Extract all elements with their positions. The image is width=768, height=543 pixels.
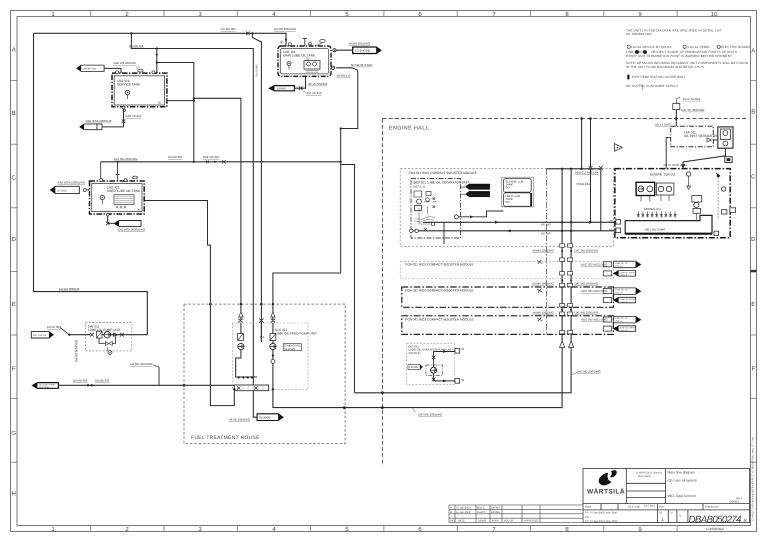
FUEL TREATMENT HOUSE boundary dashed [184,304,345,444]
svg-text:Make: Make [585,506,592,509]
row of injector valves [637,212,676,218]
drain symbol below [108,351,112,355]
valve on y161 [206,160,226,163]
feed pump unit box [232,323,308,389]
wire T1 right outlet to treatment [101,161,341,163]
svg-text:Avec Mach: Avec Mach [638,475,651,478]
svg-text:10: 10 [711,11,718,18]
svg-text:AD. MS: AD. MS [541,223,551,227]
valves above/below [432,356,436,381]
svg-text:D: D [751,236,756,243]
top fittings [100,179,103,182]
svg-text:(NOTE 1): (NOTE 1) [413,185,425,189]
flow arrows up on risers [560,341,574,348]
svg-text:IN THE UNIT FLOW DIAGRAMS AND: IN THE UNIT FLOW DIAGRAMS AND DETAIL LIS… [626,65,704,69]
svg-text:ENGINE HALL: ENGINE HALL [389,126,429,132]
wire top line y=33.3 [34,33,287,334]
engine TQA011 [610,169,736,238]
svg-text:SLUDGE: SLUDGE [259,416,271,420]
svg-text:C:\WDCS\Drawings\DBAB050274_Ma: C:\WDCS\Drawings\DBAB050274_MainFlow.dwg… [752,436,755,521]
svg-text:ENG LP: ENG LP [620,301,628,304]
svg-text:DET MSL: DET MSL [644,505,656,508]
wire suction line y=385.3 [58,384,234,386]
svg-text:CUSTOMER SUPPLY: CUSTOMER SUPPLY [646,84,678,88]
svg-text:CuAPT: CuAPT [477,511,486,514]
check valve [114,333,118,336]
svg-text:(2): (2) [280,40,283,44]
wire T2 drain header y=128.8 [341,70,358,128]
svg-text:A: A [450,506,452,509]
svg-text:LOCAL DEVICE BY WILHA: LOCAL DEVICE BY WILHA [631,45,672,49]
svg-text:PGA 021 WO2 COMPACT BOOSTER MO: PGA 021 WO2 COMPACT BOOSTER MODULE [405,263,473,267]
svg-text:SC DB 337/DWG: SC DB 337/DWG [351,63,373,67]
svg-text:Drawing No: Drawing No [705,506,719,509]
svg-text:OVERFLOW: OVERFLOW [83,67,97,70]
module PGA041 [402,316,614,335]
svg-text:No. DBAB017392: No. DBAB017392 [626,32,652,36]
svg-text:TR.OIL: TR.OIL [409,365,418,369]
flow triangle symbol [666,138,671,169]
svg-text:DA MD 905/DWG: DA MD 905/DWG [274,27,296,31]
separator unit box QBS101 [411,179,461,239]
sludge/dirty tank boxes [501,177,533,207]
svg-text:DA WD 905: DA WD 905 [221,27,236,31]
svg-text:USED LUBE OIL TANK: USED LUBE OIL TANK [107,189,141,193]
Wartsila logo [587,470,625,495]
svg-text:PIPE PENETRATION OUTER WALL: PIPE PENETRATION OUTER WALL [632,75,686,79]
svg-text:ADD 011 PCS LPA: ADD 011 PCS LPA [575,171,599,175]
valve on top line [246,31,250,35]
valve [90,333,94,337]
svg-text:ENG LP: ENG LP [615,292,623,295]
svg-text:MAIN LUBE OIL TANK: MAIN LUBE OIL TANK [283,54,316,58]
junction dots top [130,32,253,55]
svg-text:H: H [12,491,16,498]
module PGA031 [402,287,614,307]
manifold [236,376,257,378]
right end connector boxes + flags strip1 [581,261,640,277]
svg-text:DA MD 456: DA MD 456 [129,44,144,48]
flag T3 supply [51,181,90,194]
svg-text:DATE: DATE [458,520,465,523]
bus under module [546,168,600,170]
svg-text:APPR: APPR [492,520,499,523]
pump label box [283,344,301,351]
heater hatch box [114,195,134,205]
svg-text:DA MD 903: DA MD 903 [73,378,88,382]
flag inside [408,365,420,370]
svg-text:05: 05 [610,228,614,232]
svg-text:JAC VD 450: JAC VD 450 [306,91,322,95]
svg-text:G: G [11,430,16,437]
right end connector boxes + flags strip2 [581,288,640,304]
fan unit box [718,127,733,148]
wire drop T2 to line1 [340,129,342,274]
svg-text:DAT MD 206/DWG: DAT MD 206/DWG [114,157,138,161]
svg-text:ENG LP: ENG LP [620,329,628,332]
svg-text:AD VT DWG: AD VT DWG [655,123,671,127]
svg-text:NORMAL 011: NORMAL 011 [644,207,662,211]
svg-text:DA VTS DWG: DA VTS DWG [683,97,701,101]
wire link to 356 drop [341,165,355,393]
svg-text:DATMS: DATMS [491,511,500,514]
svg-text:B: B [12,110,16,117]
label stub [158,367,160,385]
bypass relief loop [99,336,116,343]
notes text block top right [626,29,750,89]
svg-text:AD VTTRHE PCSL: AD VTTRHE PCSL [663,163,687,167]
svg-text:LUBE OIL PUMP UNIT: LUBE OIL PUMP UNIT [88,328,121,332]
svg-text:B: B [450,511,452,514]
svg-text:APPROVED: APPROVED [524,520,539,523]
svg-text:ELECTRIC BOARD: ELECTRIC BOARD [721,45,750,49]
svg-text:F: F [751,366,755,373]
module PGA011 boundary [400,169,613,247]
flow arrows down [239,312,275,317]
svg-text:01: 01 [461,347,465,351]
svg-text:11-Jan-2009: 11-Jan-2009 [456,511,471,514]
svg-text:(2): (2) [306,57,309,61]
pump box 1 (thick) [636,182,655,195]
svg-text:DAT MD 105/DWG: DAT MD 105/DWG [575,310,599,314]
wire line1 y=394.3 [355,169,572,393]
svg-text:Main flow diagram: Main flow diagram [668,471,696,475]
bottom nozzle [122,106,125,109]
flags compressed air / operating water [466,184,490,189]
svg-text:VA MN 105/DWG: VA MN 105/DWG [532,249,554,253]
svg-text:ADD BY: ADD BY [504,520,514,523]
svg-text:VA MN 105/DWG: VA MN 105/DWG [532,282,554,286]
unit to tank line [454,215,458,219]
wire line A supply to engine [423,221,616,223]
svg-text:LUBE OIL TO: LUBE OIL TO [615,262,628,265]
svg-text:VA MN 105/DWG: VA MN 105/DWG [532,310,554,314]
flag T3 drain [106,214,145,232]
pump box 2 [656,183,674,195]
svg-text:LUBE OIL FROM: LUBE OIL FROM [620,298,636,301]
svg-text:DAT MD 200/DWG: DAT MD 200/DWG [577,369,601,373]
ENGINE HALL boundary dashed [383,119,748,467]
svg-text:LUBE OIL FROM: LUBE OIL FROM [620,271,636,274]
svg-text:MwCC: MwCC [477,506,485,509]
svg-text:F: F [12,366,16,373]
svg-text:VA MN 305/DWG: VA MN 305/DWG [349,42,371,46]
filters [238,334,244,341]
right end connector boxes + flags strip3 [581,316,640,332]
svg-text:IMO: Opal Cement: IMO: Opal Cement [668,494,696,498]
svg-text:DAT VD 200/DWG: DAT VD 200/DWG [681,108,704,112]
module PGA021 [400,262,613,279]
flag T2 drain [269,76,327,95]
svg-text:DA VD 903: DA VD 903 [47,325,61,329]
svg-text:ENG LP: ENG LP [620,274,628,277]
svg-text:PP: PP [585,512,589,515]
drop with slant to engine [683,148,725,168]
svg-text:COMPRESSED AIR: COMPRESSED AIR [470,186,489,189]
tank LAG101 main lube oil tank [278,39,331,77]
svg-text:EVERY UNIT TERMINATION POINT I: EVERY UNIT TERMINATION POINT IS WARMED B… [626,54,732,58]
right band dark divider [751,270,757,272]
svg-text:A: A [751,48,755,55]
level indicator [125,90,129,94]
svg-text:SA VD 905: SA VD 905 [256,64,259,77]
junction dots on lines A/B [561,221,572,232]
valves [238,319,275,323]
svg-text:ADC 021 WO2 DWG: ADC 021 WO2 DWG [581,262,607,266]
svg-text:PGA 011 WO2 COMPACT BOOSTER MO: PGA 011 WO2 COMPACT BOOSTER MODULE [409,171,477,175]
svg-text:PGA 041 WO2 COMPACT BOOSTER MO: PGA 041 WO2 COMPACT BOOSTER MODULE [405,317,473,321]
drain to flag [253,391,257,418]
svg-text:(SIMILING): (SIMILING) [577,182,591,186]
svg-text:VA VE 104/DWG: VA VE 104/DWG [229,418,250,422]
heater box inside [304,61,320,69]
svg-text:SAE WSA 200S/P40: SAE WSA 200S/P40 [86,119,112,123]
wet oil sump [625,215,712,233]
svg-text:DA WD 908/P40: DA WD 908/P40 [59,287,80,291]
valve marks inside strips [537,260,542,322]
flag overflow to T1 [77,61,136,73]
flag sludge pump suction [33,383,59,390]
svg-text:DA MD 905: DA MD 905 [168,155,183,159]
svg-text:LUBE OIL FROM: LUBE OIL FROM [620,327,636,330]
svg-text:FUEL TREATMENT HOUSE: FUEL TREATMENT HOUSE [191,435,260,441]
svg-text:DATMS: DATMS [491,506,500,509]
svg-text:C: C [751,174,756,181]
svg-text:02: 02 [461,378,465,382]
svg-text:DAT MD 200/DWG: DAT MD 200/DWG [418,412,442,416]
svg-text:VA MN 413: VA MN 413 [337,73,351,77]
svg-text:DRAIN: DRAIN [277,87,286,91]
wire line2 y=407.3 [273,169,562,408]
svg-text:SAE WSA 100S/DWG: SAE WSA 100S/DWG [58,181,86,185]
pump with dashdot box [426,365,443,375]
svg-text:(4): (4) [137,208,140,212]
svg-text:WÄRTSILÄ: WÄRTSILÄ [587,488,625,496]
svg-text:1: 1 [661,517,664,523]
svg-text:SERVICE TANK: SERVICE TANK [117,83,141,87]
pump1 down to manifold [236,350,241,378]
wire T3 vent riser [117,162,119,175]
svg-text:SAE WSA 300S/DWG: SAE WSA 300S/DWG [118,227,146,231]
svg-text:DRY LUB OIL: DRY LUB OIL [33,334,47,337]
left connector boxes [616,220,621,225]
svg-text:TO ENGINE: TO ENGINE [355,49,370,53]
svg-text:ENGINE TQA 011: ENGINE TQA 011 [650,172,676,176]
svg-text:PGA 031 WO2 COMPACT BOOSTER MO: PGA 031 WO2 COMPACT BOOSTER MODULE [405,289,473,293]
flag T1 drain [80,109,142,130]
svg-text:SLUDGE PUMP: SLUDGE PUMP [39,384,55,387]
svg-text:WET OIL SUMP: WET OIL SUMP [645,227,665,231]
pump unit box [69,323,132,355]
oil mist separator box LAF011 [671,126,714,146]
svg-text:}: } [642,85,644,91]
left feed loop [210,304,234,406]
svg-text:SUCTION: SUCTION [39,386,49,389]
svg-text:(2): (2) [136,66,139,70]
svg-text:07-Jan-2009: 07-Jan-2009 [456,506,471,509]
strainer trough [234,385,268,391]
pumps [238,343,244,349]
svg-text:DBAB050274: DBAB050274 [689,514,743,525]
svg-text:ADC 041 WO2 DWG: ADC 041 WO2 DWG [581,318,607,322]
svg-text:ENG LP: ENG LP [615,265,623,268]
tank LAG921 used lube oil tank [90,175,145,215]
svg-text:DRWN: DRWN [478,520,486,523]
wire y=64.3 transfer line to sludge [336,68,358,71]
suction junction [68,334,70,336]
filter [97,331,103,338]
pump [104,332,110,338]
vent pot [673,104,680,110]
svg-text:SAE MD 905: SAE MD 905 [203,155,220,159]
svg-text:C/09/05: C/09/05 [729,500,739,504]
wire line B return from engine [413,230,616,232]
svg-text:LUBE OIL TO: LUBE OIL TO [615,289,628,292]
wire FTH feeders [273,273,341,321]
wire T3 outlet down to FTH [144,201,210,305]
svg-text:AD. MS: AD. MS [541,231,551,235]
main flow line through unit [69,334,90,336]
svg-text:DAE VD 450: DAE VD 450 [126,114,142,118]
svg-text:OPERATING WATER: OPERATING WATER [470,193,490,196]
wire left loop [34,33,148,334]
svg-text:ADC 031 WO2 DWG: ADC 031 WO2 DWG [581,289,607,293]
right inner dashed riser [717,177,719,219]
svg-text:REV: REV [450,520,456,523]
svg-text:Confidential: Confidential [706,527,724,531]
unit internals [414,191,422,197]
svg-text:SC VD 053/045: SC VD 053/045 [308,82,328,86]
continue feeders below valves [240,323,242,334]
svg-text:BE C3.rap: BE C3.rap [628,506,641,509]
svg-text:DLE WS: DLE WS [284,347,295,351]
svg-text:SAE WS 305/P40: SAE WS 305/P40 [114,61,137,65]
svg-text:SLUDGE: SLUDGE [58,189,68,192]
svg-text:DAT MD 105/DWG: DAT MD 105/DWG [575,282,599,286]
svg-text:© WÄRTSILÄ Used by: © WÄRTSILÄ Used by [636,471,663,475]
svg-text:LUBE OIL TO: LUBE OIL TO [615,317,628,320]
svg-text:DAT MD 105/DWG: DAT MD 105/DWG [575,249,599,253]
wire riser to T1 top [131,33,253,377]
svg-text:B: B [751,109,755,116]
svg-text:E: E [12,301,16,308]
tank LAG913 service tank [112,66,167,112]
small box on slant [725,157,732,163]
svg-text:ENG LP: ENG LP [615,320,623,323]
svg-text:07-Jan-2009 John Sam: 07-Jan-2009 John Sam [590,512,617,515]
svg-text:LUBE OIL FEED PUMP UNIT: LUBE OIL FEED PUMP UNIT [275,332,317,336]
svg-text:A: A [12,47,16,54]
svg-text:OIL MIST SEPARATOR: OIL MIST SEPARATOR [684,134,718,138]
svg-text:C: C [12,175,17,182]
svg-text:D: D [12,236,17,243]
svg-text:Size: Size [659,506,665,509]
svg-text:PO: PO [585,516,589,519]
stubs below pumps [641,195,669,202]
top fittings [289,43,292,46]
svg-text:DA MD 202/DWG: DA MD 202/DWG [131,362,153,366]
svg-text:(Q) Lube oil system: (Q) Lube oil system [668,479,698,483]
svg-text:LOCAL PANEL: LOCAL PANEL [688,45,710,49]
T2 second outlet with meter [331,63,372,78]
svg-text:DA MD 933: DA MD 933 [95,378,110,382]
svg-text:E: E [751,301,755,308]
connector ticks on risers at strip crossings [560,244,573,334]
revision table [449,505,583,523]
svg-text:PP: PP [585,520,589,523]
svg-text:(4): (4) [158,101,161,105]
svg-text:(NOTE 1): (NOTE 1) [409,351,421,355]
connector on right edge [730,208,736,213]
junction dot on T2 riser [285,39,287,41]
top nozzles [116,71,119,74]
flag pump suction [31,332,53,338]
pump2 branch [272,350,274,390]
flag T2 to engine (right) [333,42,381,54]
right-side internals [686,172,690,176]
svg-text:07-Jan-2009 Janu YQO: 07-Jan-2009 Janu YQO [590,520,617,523]
